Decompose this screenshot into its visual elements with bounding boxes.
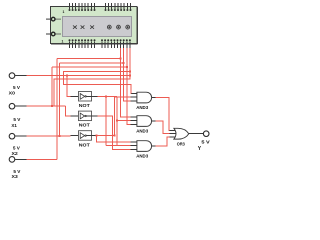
wire NOT U3 output to AND U7 input3: [97, 116, 130, 149]
NOT gate U2: [71, 92, 98, 102]
wire bus H1: [57, 57, 120, 59]
NOT U4 label: [79, 142, 90, 147]
wire AND U5 output to OR U8 input1: [156, 98, 170, 131]
source V1 X0 terminal: [9, 73, 26, 79]
svg-text:AND3: AND3: [136, 105, 148, 110]
wire NOT U2 drop at x116.9 to AND U7 input2 line: [116, 96, 118, 145]
NOT gate U3: [71, 111, 98, 121]
output label 5V: [201, 140, 210, 146]
svg-text:1: 1: [63, 10, 65, 14]
OR3 U8 label: [177, 142, 185, 147]
junction dots: [51, 57, 131, 137]
wire NOT U4 output branch: [97, 135, 114, 137]
source V3 X2 terminal: [9, 133, 26, 139]
AND3 U7 label: [136, 154, 148, 159]
wire X2 horizontal to NOT U4 input: [27, 135, 71, 137]
wire X3 riser to bus H1: [56, 58, 58, 159]
svg-text:X0: X0: [9, 91, 16, 97]
wire NOT U2 branch drop at x106.1: [105, 96, 107, 145]
wire NOT U2 output across: [97, 95, 117, 97]
IC U1 inner panel: [63, 17, 132, 37]
IC U1 pin mark bottom: [62, 40, 64, 44]
AND3 gate U7: [131, 141, 156, 152]
svg-text:X2: X2: [12, 151, 19, 157]
wire bus H4 with drop to AND U5 input1: [64, 71, 132, 93]
wire bus H6 from chip pin P4: [54, 48, 130, 106]
wire X1 to NOT U3 input: [66, 106, 71, 116]
svg-text:OR3: OR3: [177, 142, 185, 147]
wire X0 to NOT U2 input: [67, 75, 71, 96]
wire AND U6 output to OR U8 input2: [156, 121, 170, 134]
IC U1 pin1 mark: [63, 10, 65, 14]
wire AND U7 input2 horizontal: [106, 144, 131, 146]
AND3 U6 label: [136, 128, 148, 133]
wire NOT U4 drop to AND U7 input1: [97, 136, 131, 142]
svg-text:5 V: 5 V: [201, 140, 210, 146]
IC U1 panel x-marks: [73, 25, 94, 28]
source V4 label X3: [12, 174, 19, 180]
svg-text:NOT: NOT: [79, 103, 90, 108]
wire AND U6 input2 branch: [117, 120, 131, 122]
source V4 X3 terminal: [9, 157, 26, 163]
wire X1 horizontal net: [27, 105, 66, 107]
AND3 gate U6: [131, 116, 156, 127]
svg-text:X3: X3: [12, 174, 19, 179]
source V2 X1 terminal: [9, 103, 26, 109]
wire X3 horizontal: [27, 158, 58, 160]
source V3 label X2: [12, 151, 19, 157]
source V1 label 5V: [13, 85, 21, 91]
IC U1 top pins: [70, 3, 131, 9]
svg-text:5 V: 5 V: [13, 85, 21, 91]
IC U1 bottom pins: [70, 41, 130, 48]
wires (red): [27, 48, 170, 160]
svg-text:1: 1: [62, 40, 64, 44]
wire bus H3: [52, 66, 127, 68]
IC U1 bottom pads: [69, 39, 131, 41]
AND3 gate U5: [131, 92, 156, 103]
svg-text:NOT: NOT: [79, 123, 90, 128]
IC U1 body: [51, 7, 138, 44]
IC U1 panel o-marks: [107, 25, 129, 29]
source V1 label X0: [9, 91, 16, 97]
source V3 label 5V: [13, 146, 21, 152]
NOT U2 label: [79, 103, 90, 108]
wire chip pin P1 drop to AND U6 input1: [121, 48, 131, 117]
wire X0 horizontal net: [27, 74, 130, 76]
output label Y: [198, 146, 202, 152]
AND3 U5 label: [136, 105, 148, 110]
svg-text:5 V: 5 V: [13, 117, 21, 123]
IC U1 left terminal pin 1: [46, 17, 61, 21]
svg-text:5 V: 5 V: [13, 169, 21, 175]
OR3 gate U8: [170, 128, 189, 139]
output terminal Y: [189, 131, 209, 137]
svg-text:5 V: 5 V: [13, 146, 21, 152]
IC U1 top pads: [69, 9, 132, 11]
NOT gate U4: [71, 131, 98, 141]
svg-text:NOT: NOT: [79, 142, 90, 147]
wire X2 riser to bus H2: [59, 63, 61, 136]
wire chip pin P3 drop to AND U6 input3: [127, 48, 131, 125]
NOT U3 label: [79, 123, 90, 128]
wire NOT U4 riser to AND U5 input2: [115, 97, 131, 136]
svg-text:AND3: AND3: [136, 154, 148, 159]
source V2 label X1: [11, 123, 17, 129]
wire chip pin P2 drop to AND U5 input3: [124, 48, 131, 101]
wire bus H2: [60, 62, 124, 64]
IC U1 body shadow edge: [51, 7, 138, 44]
svg-text:AND3: AND3: [136, 128, 148, 133]
wire X1 riser to bus H3: [51, 67, 53, 106]
wire AND U7 output to OR U8 input3: [156, 137, 170, 146]
source V2 label 5V: [13, 117, 21, 123]
IC U1 left terminal pin 2: [46, 32, 61, 36]
svg-text:X1: X1: [11, 123, 17, 129]
source V4 label 5V: [13, 169, 21, 175]
